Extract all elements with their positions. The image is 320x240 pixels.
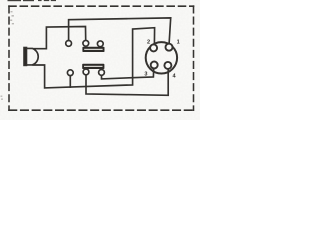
dashed enclosure border left edge	[8, 6, 10, 110]
wire: lower switch middle contact down and across to connector pin 4	[86, 69, 168, 95]
dashed enclosure border right edge	[193, 6, 195, 110]
upper switch S1 right terminal circle	[97, 41, 103, 47]
wire: horn top terminal to upper switch middle contact	[33, 27, 85, 49]
svg-text:1: 1	[177, 40, 180, 46]
scanned paper background	[0, 0, 200, 120]
lower switch S2 left terminal circle	[67, 70, 73, 76]
wire: lower switch left contact stub to rail	[69, 76, 71, 88]
horn H1 magnet bar	[24, 47, 27, 65]
horn H1 dome	[27, 48, 39, 65]
svg-text:2: 2	[147, 40, 150, 46]
wire: horn bottom terminal along bottom rail up to connector pin 2	[33, 28, 154, 88]
wire: lower switch right contact across to connector pin 3	[102, 68, 154, 79]
connector P1 pin 2 (top-left)	[150, 44, 157, 51]
dashed enclosure border top edge	[9, 5, 194, 7]
svg-text:3: 3	[144, 72, 147, 78]
upper switch S1 left terminal circle	[66, 41, 72, 47]
lower switch S2 bridge bar	[82, 64, 104, 69]
lower switch S2 right terminal circle	[99, 70, 105, 76]
connector P1 pin 3 (bottom-left)	[151, 62, 158, 69]
connector P1 pin 1 (top-right)	[166, 44, 173, 51]
upper switch S1 bridge bar	[82, 47, 104, 52]
lower switch S2 middle terminal circle	[83, 69, 89, 75]
upper switch S1 middle terminal circle	[83, 40, 89, 46]
connector P1 outer circle	[146, 42, 177, 73]
dashed enclosure border bottom edge	[9, 109, 194, 111]
connector P1 pin 4 (bottom-right)	[164, 62, 171, 69]
cropped text artifact row (top edge)	[8, 0, 57, 1]
wire: upper switch left contact up and across to connector pin 1	[69, 18, 171, 44]
